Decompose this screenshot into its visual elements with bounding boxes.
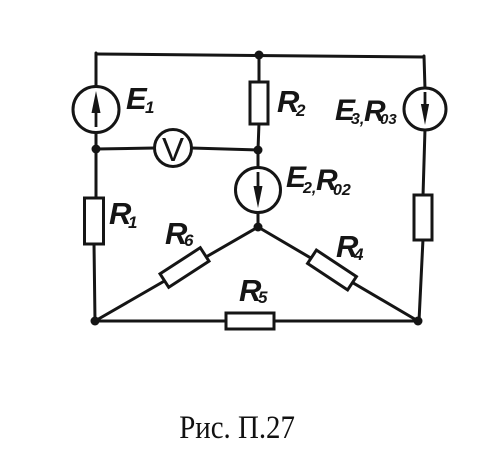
- svg-text:1: 1: [128, 213, 137, 232]
- node top-middle: [255, 51, 264, 60]
- resistor R6: [160, 248, 209, 288]
- arrow E1 (up): [95, 106, 98, 127]
- resistor R4: [308, 250, 357, 290]
- resistor R3 (right branch): [414, 195, 432, 240]
- svg-text:5: 5: [258, 288, 268, 307]
- svg-text:3,: 3,: [351, 111, 364, 128]
- wire middle branch upper: [258, 55, 261, 83]
- svg-text:02: 02: [333, 182, 351, 199]
- wire E2 to node C: [257, 212, 260, 227]
- node bottom-right: [414, 317, 423, 326]
- wire right mid: [423, 129, 425, 196]
- svg-text:2,: 2,: [302, 180, 316, 197]
- source E3: [404, 88, 446, 130]
- arrow E3 (down): [424, 92, 427, 110]
- wire voltmeter left: [96, 148, 155, 149]
- svg-text:4: 4: [353, 245, 364, 264]
- wire node to E2: [257, 150, 260, 169]
- resistor R5: [226, 313, 274, 329]
- wire left upper: [95, 53, 98, 88]
- source E2: [236, 168, 281, 213]
- node below E2: [254, 223, 263, 232]
- node left-middle: [92, 145, 101, 154]
- wire right upper: [424, 56, 425, 89]
- wire top: [96, 54, 424, 57]
- wire R2 to node: [258, 123, 259, 150]
- svg-text:1: 1: [145, 98, 154, 117]
- node bottom-left: [91, 317, 100, 326]
- wire diagonal right R4: [258, 227, 418, 321]
- arrow E2 (down): [257, 172, 260, 192]
- node middle: [254, 146, 263, 155]
- resistor R2: [250, 82, 268, 124]
- resistor R1: [85, 198, 104, 244]
- svg-text:V: V: [162, 131, 184, 168]
- node left-mid junction wire: [95, 132, 98, 200]
- wire left lower: [94, 243, 95, 321]
- caption Рис. П.27: [30, 412, 445, 445]
- wire right lower: [419, 239, 423, 321]
- svg-text:6: 6: [184, 231, 194, 250]
- svg-text:2: 2: [295, 101, 306, 120]
- voltmeter V: [155, 130, 192, 167]
- svg-text:03: 03: [380, 111, 397, 128]
- wire bottom: [95, 320, 418, 323]
- source E1: [73, 87, 119, 133]
- wire voltmeter right: [191, 148, 258, 150]
- wire diagonal left R6: [95, 227, 258, 321]
